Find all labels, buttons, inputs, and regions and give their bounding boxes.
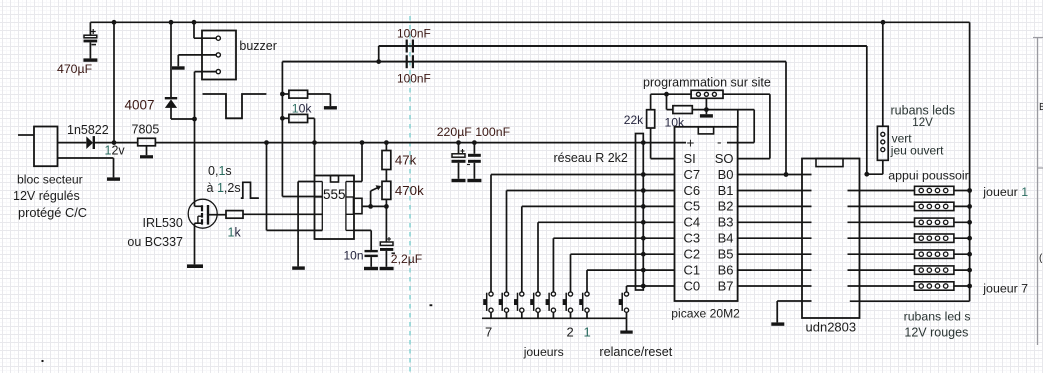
resistor R 47k — [382, 151, 391, 170]
wire +12V right rail — [969, 22, 971, 285]
bloc secteur box — [34, 127, 58, 167]
svg-text:C4: C4 — [684, 215, 701, 230]
diode D 4007 cathode bar — [165, 97, 177, 99]
node dot 47k top — [384, 140, 389, 145]
svg-text:C1: C1 — [684, 262, 701, 277]
svg-text:C7: C7 — [684, 167, 701, 182]
node dot led connector on top rail — [881, 20, 886, 25]
node dot 4007 on top rail — [169, 20, 174, 25]
svg-text:7805: 7805 — [132, 123, 160, 137]
svg-text:C0: C0 — [684, 278, 701, 293]
node dot middle pin junction — [704, 107, 709, 112]
resistor R 10k lower — [289, 114, 308, 122]
waveform symbol buzzer — [203, 94, 267, 118]
svg-text:rubans leds: rubans leds — [891, 104, 956, 118]
programming connector box — [691, 90, 723, 98]
green connector circles — [881, 132, 885, 136]
svg-text:joueur 1: joueur 1 — [982, 185, 1028, 199]
svg-text:ou BC337: ou BC337 — [127, 235, 183, 249]
svg-text:B3: B3 — [718, 215, 734, 230]
wire 555 vcc drop — [314, 143, 316, 176]
transistor internals — [195, 205, 203, 207]
svg-text:réseau R 2k2: réseau R 2k2 — [554, 151, 628, 165]
mcu U picaxe box — [675, 127, 738, 301]
wire 22k bottom lead — [650, 128, 652, 159]
programming connector circles — [696, 92, 700, 96]
capacitor C 100nF lower — [282, 61, 405, 63]
wire connector middle to ground — [705, 98, 707, 114]
wire relance ground stem — [626, 318, 628, 330]
potentiometer R 470k — [382, 181, 391, 199]
wire rail61 drop to B0 — [785, 62, 787, 175]
node dot 266 on 5V rail — [264, 140, 269, 145]
wire mains stub — [18, 134, 34, 136]
node dot buzzer on top rail — [192, 20, 197, 25]
ground programming — [700, 114, 713, 117]
ground 10k upper — [324, 106, 337, 109]
wire 555 stub to 470k — [362, 205, 386, 207]
svg-text:B0: B0 — [718, 167, 734, 182]
wire 10n top lead — [370, 250, 372, 252]
node dot 555 vcc — [312, 140, 317, 145]
wire buzzer middle terminal — [178, 54, 216, 56]
svg-text:B6: B6 — [718, 262, 734, 277]
wires B1-B7 rows — [738, 190, 812, 192]
svg-text:47k: 47k — [395, 153, 417, 168]
node dot 555 reset top right — [360, 140, 365, 145]
svg-text:rubans led s: rubans led s — [904, 310, 971, 324]
svg-text:C6: C6 — [684, 183, 701, 198]
wire 470k bottom lead — [385, 199, 387, 206]
ground buzzer middle — [172, 66, 185, 69]
svg-text:470k: 470k — [395, 183, 424, 198]
diode D 1n5822 — [86, 136, 93, 149]
svg-text:12v: 12v — [105, 144, 126, 158]
wire 470k wiper — [370, 191, 372, 206]
svg-text:udn2803: udn2803 — [806, 320, 857, 335]
node dot rail bend — [376, 59, 381, 64]
buzzer box — [202, 31, 236, 80]
node dot 470k bottom — [384, 204, 389, 209]
svg-text:relance/reset: relance/reset — [599, 345, 672, 359]
wire source to ground — [194, 223, 196, 264]
svg-text:protégé C/C: protégé C/C — [18, 205, 87, 220]
svg-text:220µF 100nF: 220µF 100nF — [437, 125, 511, 139]
wire 1k to 555 pin3 — [243, 213, 322, 215]
wire 10k prog left lead — [666, 94, 668, 109]
buzzer terminal circles — [216, 36, 220, 40]
555 top notch — [331, 176, 339, 183]
driver U udn2803 box — [802, 159, 860, 319]
wire 555 pin2 horizontal — [282, 196, 322, 198]
svg-text:à 1,2s: à 1,2s — [207, 181, 241, 195]
led strip connectors joueur1-7 — [848, 190, 915, 192]
svg-text:10n: 10n — [344, 249, 364, 263]
resistor R 10k prog — [673, 106, 692, 114]
ground 2.2uF — [380, 267, 394, 270]
wire 10k upper leads — [282, 93, 289, 95]
svg-text:22k: 22k — [624, 113, 644, 127]
capacitor C 10n — [365, 250, 378, 252]
stray speck 2 — [430, 304, 433, 306]
svg-text:programmation sur site: programmation sur site — [643, 76, 771, 90]
wire buttons common rail — [482, 317, 627, 319]
svg-text:10k: 10k — [292, 102, 313, 116]
wires picaxe C7-C0 rows to buttons — [491, 174, 675, 176]
wire riser to picaxe corner — [737, 110, 739, 127]
push buttons joueurs + relance — [486, 293, 488, 311]
wire bloc output to diode — [58, 142, 87, 144]
wire buzzer top terminal — [194, 37, 216, 39]
svg-text:IRL530: IRL530 — [143, 216, 183, 230]
svg-text:0,1s: 0,1s — [208, 164, 232, 178]
wire 10k prog right lead — [692, 109, 754, 111]
ground bloc 0V — [107, 177, 120, 180]
node dot reseau top on 5V rail — [641, 140, 646, 145]
svg-text:C2: C2 — [684, 247, 701, 262]
wire udn gnd pin — [777, 300, 811, 302]
svg-text:joueur 7: joueur 7 — [982, 282, 1028, 296]
wire 47k top lead — [385, 143, 387, 151]
svg-text:+: + — [687, 136, 695, 151]
node dot 12v — [112, 140, 117, 145]
svg-text:100nF: 100nF — [397, 72, 431, 86]
555 inner columns — [321, 182, 323, 231]
svg-text:joueurs: joueurs — [523, 345, 564, 359]
svg-text:picaxe 20M2: picaxe 20M2 — [671, 307, 740, 321]
wire drain from buzzer node — [194, 119, 196, 206]
wire rail46 drop — [866, 46, 868, 174]
wire B0 row — [738, 174, 812, 176]
svg-text:470µF: 470µF — [57, 62, 93, 76]
wire connector-left horizontal — [651, 93, 692, 95]
svg-text:2,2µF: 2,2µF — [391, 252, 422, 266]
right page-edge line — [1037, 37, 1039, 345]
svg-text:B5: B5 — [718, 247, 734, 262]
node dot 220uF — [456, 140, 461, 145]
svg-text:12V rouges: 12V rouges — [904, 326, 968, 340]
ground relance — [620, 331, 632, 334]
svg-text:appui poussoir: appui poussoir — [888, 168, 969, 182]
svg-text:SO: SO — [715, 151, 734, 166]
node dot wiper — [368, 204, 373, 209]
node dot green connector — [864, 172, 869, 177]
svg-text:B2: B2 — [718, 199, 734, 214]
ground transistor — [187, 264, 203, 268]
resistor R 22k — [647, 110, 655, 128]
wire 4007 branch vertical — [170, 22, 172, 98]
wire gate to 1k — [217, 214, 226, 216]
wire diode to 7805 — [95, 142, 138, 144]
wire rail y46 left bend — [378, 46, 380, 62]
svg-text:SI: SI — [684, 151, 696, 166]
node dot 10k prog tap — [664, 92, 669, 97]
wire 47k-470k link — [385, 170, 387, 182]
page divider dashed cyan line — [409, 16, 411, 373]
udn top notch — [816, 159, 843, 167]
resistor R 1k — [226, 211, 243, 219]
svg-text:-: - — [717, 135, 722, 150]
capacitor C 470uF — [89, 22, 91, 35]
wire connector right to SO — [723, 93, 770, 95]
wire green connector bottom — [867, 173, 883, 175]
node dot 10k2 left — [280, 116, 285, 121]
stray speck — [42, 360, 44, 362]
capacitor C 220uF — [458, 143, 460, 154]
wire 10k lower leads — [282, 117, 289, 119]
wire minus pin link — [753, 110, 755, 143]
capacitor C 2.2uF — [385, 206, 387, 241]
svg-text:1n5822: 1n5822 — [67, 123, 109, 137]
svg-text:bloc secteur: bloc secteur — [17, 173, 83, 187]
green connector box — [877, 126, 888, 160]
resistor R 10k upper — [289, 90, 308, 98]
7805 ground stem — [146, 146, 148, 155]
ground 220uF — [452, 179, 466, 182]
wire buzzer bottom terminal — [195, 71, 217, 73]
svg-text:555: 555 — [323, 187, 346, 202]
node dot 100nF dec — [472, 140, 477, 145]
ground 100nF dec — [467, 179, 481, 182]
svg-text:jeu ouvert: jeu ouvert — [890, 144, 944, 158]
wire rail y46 — [379, 45, 867, 47]
ground 10n — [364, 267, 378, 270]
svg-text:B1: B1 — [718, 183, 734, 198]
svg-text:C3: C3 — [684, 231, 701, 246]
svg-text:12V régulés: 12V régulés — [13, 189, 80, 203]
470k wiper arrowhead — [376, 185, 382, 190]
svg-text:buzzer: buzzer — [239, 39, 277, 53]
svg-text:12V: 12V — [912, 117, 933, 129]
svg-text:B7: B7 — [718, 278, 734, 293]
node dot 12v riser on top rail — [112, 20, 117, 25]
wire rail y61 left drop — [281, 62, 283, 197]
svg-text:1: 1 — [584, 325, 591, 340]
svg-text:4007: 4007 — [125, 98, 155, 113]
node dot buzzer/transistor — [192, 117, 197, 122]
svg-text:7: 7 — [485, 325, 492, 340]
wire bloc 0V output — [58, 157, 114, 159]
transistor Q IRL530 circle — [188, 199, 217, 228]
svg-text:C5: C5 — [684, 199, 701, 214]
wire 4007 bottom to buzzer node — [171, 118, 195, 120]
wire rail y61 — [282, 61, 786, 63]
wire 555 pin left-bottom — [266, 143, 268, 231]
ground 555 pin1 — [292, 266, 305, 269]
wire 12v riser — [113, 22, 115, 142]
svg-text:100nF: 100nF — [397, 27, 431, 41]
wire udn COM to +12V — [850, 300, 970, 302]
ground below 470uF — [83, 58, 97, 61]
555 right stub box — [354, 198, 363, 213]
wire green connector top — [882, 22, 884, 126]
timer U 555 box — [315, 176, 355, 240]
picaxe top notch — [698, 127, 713, 134]
capacitor C 100nF dec — [473, 143, 475, 154]
diode D 4007 triangle — [165, 99, 177, 108]
ground udn — [771, 322, 784, 325]
wire 555 pin right-bottom — [354, 229, 371, 231]
svg-text:B: B — [1039, 102, 1043, 113]
wire SI row — [651, 158, 675, 160]
wire +12V top rail — [90, 21, 969, 23]
wire 555 right-top pin — [361, 143, 363, 182]
wire 22k top lead — [650, 94, 652, 110]
svg-text:1k: 1k — [228, 226, 242, 240]
wire 5V rail — [155, 142, 686, 144]
node dot B0 — [784, 172, 789, 177]
ground 7805 — [140, 155, 153, 158]
capacitor C 100nF upper — [379, 45, 406, 47]
555 pin separators — [315, 181, 323, 183]
resistor network reseau R box — [636, 134, 644, 291]
svg-text:B4: B4 — [718, 231, 734, 246]
svg-text:2: 2 — [567, 325, 574, 340]
regulator U 7805 box — [138, 138, 156, 146]
waveform symbol pulse — [241, 182, 259, 198]
node dot 10k1 left — [280, 92, 285, 97]
wire 555 pin1 ground — [298, 181, 314, 183]
